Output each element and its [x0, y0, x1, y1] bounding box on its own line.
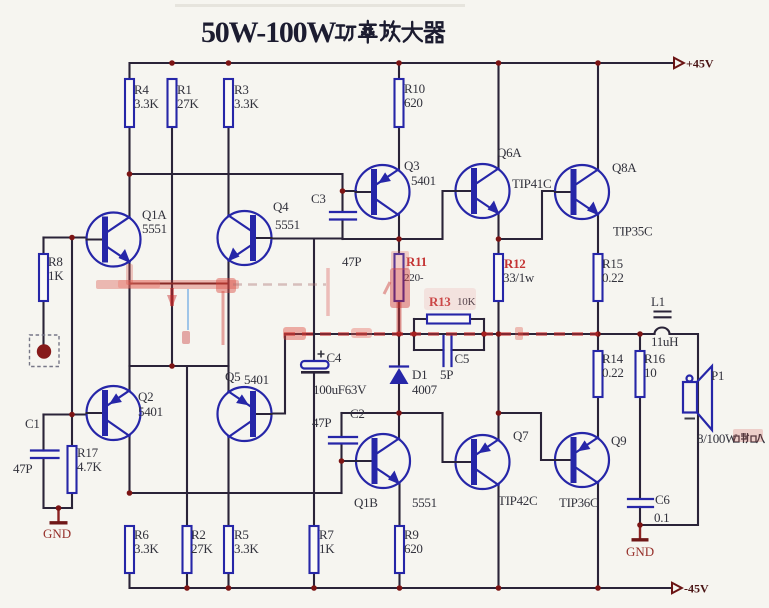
svg-text:P1: P1 [711, 368, 724, 383]
wire R7 bottom lead [313, 573, 315, 588]
wire R11 top lead [398, 239, 400, 254]
transistor Q5 [218, 387, 272, 441]
svg-text:Q2: Q2 [138, 389, 153, 404]
svg-text:Q8A: Q8A [612, 160, 637, 175]
svg-text:R10: R10 [404, 81, 425, 96]
svg-text:R1: R1 [177, 82, 192, 97]
watermark pink wash over R13 label [424, 288, 476, 310]
watermark red drip left [170, 288, 174, 306]
svg-text:R5: R5 [234, 527, 249, 542]
title chinese characters 功率放大器 [336, 21, 444, 43]
svg-text:C4: C4 [327, 350, 342, 365]
wire R13 top branch [414, 318, 484, 320]
wire Q9 base run [499, 413, 555, 460]
svg-text:10: 10 [644, 365, 656, 380]
wire bias bus to Q7 base [443, 413, 456, 462]
svg-text:Q1B: Q1B [354, 495, 378, 510]
wire Q2 base [44, 413, 87, 415]
wire Q7 emitter to -45 rail [497, 484, 499, 588]
wire R2 bottom lead [186, 573, 188, 588]
wire C3 bottom to emitter bus [341, 220, 343, 240]
watermark smear on emitter wire [96, 280, 239, 289]
capacitor C6 [628, 499, 653, 507]
transistor Q1B [356, 434, 410, 488]
wire C4 top column [313, 239, 315, 361]
svg-text:GND: GND [626, 544, 654, 559]
watermark pale column [326, 268, 330, 316]
svg-text:47P: 47P [342, 254, 361, 269]
svg-text:5551: 5551 [412, 495, 437, 510]
wire Q6A emitter to Q8A base [499, 191, 556, 239]
wire Q1A base to Q2 base column [71, 238, 73, 415]
resistor R3 [224, 79, 233, 127]
svg-text:R9: R9 [404, 527, 419, 542]
svg-text:27K: 27K [177, 96, 199, 111]
wire Q6A emitter lead [497, 213, 499, 239]
resistor R17 [68, 446, 77, 493]
transistor Q4 [218, 211, 272, 265]
wire R14 top lead [597, 334, 599, 351]
wire Q1A collector lead [128, 174, 130, 217]
svg-text:11uH: 11uH [651, 334, 678, 349]
wire C2 bottom to Q1B base [342, 444, 356, 462]
transistor Q7 [456, 435, 510, 489]
svg-text:1K: 1K [319, 541, 335, 556]
svg-text:0.22: 0.22 [602, 270, 624, 285]
wire R7 top column from C4 [313, 373, 315, 526]
svg-text:C2: C2 [350, 406, 365, 421]
watermark red tick [515, 327, 523, 340]
capacitor C3 [330, 212, 356, 220]
wire R8 bottom to input [42, 301, 44, 345]
svg-text:3.3K: 3.3K [134, 96, 159, 111]
svg-text:+45V: +45V [686, 57, 714, 71]
wire R15 bottom to output rail [597, 301, 599, 334]
wire R4 bottom lead to node [128, 127, 130, 174]
svg-text:Q1A: Q1A [142, 207, 167, 222]
transistor Q9 [555, 433, 609, 487]
wire D1 bottom lead [398, 384, 400, 413]
svg-text:R8: R8 [48, 254, 63, 269]
watermark red drip right [222, 291, 225, 345]
wire Q3 base stub [343, 190, 357, 192]
resistor R6 [125, 526, 134, 573]
svg-text:5401: 5401 [411, 173, 436, 188]
capacitor C5 [444, 336, 452, 366]
svg-text:3.3K: 3.3K [234, 96, 259, 111]
capacitor C4 plus sign [318, 351, 325, 358]
svg-text:Q5: Q5 [225, 369, 240, 384]
svg-text:5551: 5551 [142, 221, 167, 236]
transistor Q6A [456, 164, 510, 218]
wire Q3 emitter bus y239 to Q6A base [343, 191, 456, 239]
wire Q8A emitter to R15 [597, 214, 599, 254]
svg-text:Q3: Q3 [404, 158, 419, 173]
svg-text:R7: R7 [319, 527, 334, 542]
resistor R16 [636, 351, 645, 397]
svg-text:620: 620 [404, 95, 423, 110]
svg-text:TIP36C: TIP36C [559, 495, 598, 510]
resistor R12 [494, 254, 503, 301]
wire R16 top lead [639, 334, 641, 351]
wire R17 bottom lead [71, 493, 73, 508]
watermark red mark near Q5 [182, 331, 190, 344]
wire D1 top lead [398, 334, 400, 367]
svg-text:5551: 5551 [275, 217, 300, 232]
svg-text:47P: 47P [312, 415, 331, 430]
svg-text:Q6A: Q6A [497, 145, 522, 160]
watermark stain on Q1A emitter [126, 264, 133, 285]
wire collector bus y366 [130, 365, 229, 367]
svg-text:R15: R15 [602, 256, 623, 271]
wire Q5 lower lead to R5 [227, 436, 229, 526]
wire rail y493 to Q1B base riser [130, 492, 342, 494]
wire emitter coupling y283 [130, 283, 229, 285]
wire R10 top lead [398, 63, 400, 79]
svg-text:47P: 47P [13, 461, 32, 476]
watermark smear over R11 [390, 268, 410, 308]
speaker P1 [683, 366, 712, 430]
capacitor C4 [301, 361, 329, 369]
wire Q1B emitter to R9 [398, 483, 400, 526]
wire Q5 base to output rail riser [272, 334, 285, 414]
wire output rail after L1 to speaker [640, 334, 698, 525]
wire R5 bottom lead [227, 573, 229, 588]
svg-text:C3: C3 [311, 191, 326, 206]
wire C2 top lead [340, 413, 342, 437]
wire Q2 emitter to rail y493 [128, 436, 130, 493]
svg-text:0.22: 0.22 [602, 365, 624, 380]
wire R11 bottom lead [398, 301, 400, 334]
wire Q8A collector column [597, 63, 599, 170]
transistor Q3 [356, 165, 410, 219]
wire R2 top column [186, 366, 188, 526]
svg-text:R11: R11 [406, 254, 427, 269]
wire Q3 lower lead [398, 214, 400, 239]
svg-text:8/100W: 8/100W [697, 431, 738, 446]
input terminal node [37, 344, 51, 358]
speaker label chinese 喇叭 [734, 433, 765, 443]
resistor R14 [594, 351, 603, 397]
watermark light blue line [187, 289, 189, 330]
wire R9 bottom lead [398, 573, 400, 588]
wire output rail y334 [285, 333, 655, 335]
svg-text:L1: L1 [651, 294, 665, 309]
svg-text:1K: 1K [48, 268, 64, 283]
svg-text:C1: C1 [25, 416, 40, 431]
wire R10 bottom to Q3 [398, 127, 400, 169]
wire Q4 emitter to Q5 collector column [227, 262, 229, 393]
transistor Q1A [87, 213, 141, 267]
svg-text:620: 620 [404, 541, 423, 556]
photo edge streak [175, 4, 465, 7]
wire R1 column [171, 127, 173, 366]
wire R8 top lead [42, 238, 44, 255]
wire +45V top rail [130, 63, 675, 79]
wire R16 bottom to C6 [639, 397, 641, 499]
svg-text:TIP42C: TIP42C [498, 493, 537, 508]
resistor R10 [395, 79, 404, 127]
wire R3 to Q4 collector [227, 127, 229, 216]
svg-text:R16: R16 [644, 351, 666, 366]
svg-text:R4: R4 [134, 82, 149, 97]
wire R17 top lead [71, 415, 73, 447]
wire Q6A collector column [497, 63, 499, 169]
watermark remnants [96, 251, 763, 442]
svg-text:TIP35C: TIP35C [613, 224, 652, 239]
transistor Q8A [555, 165, 609, 219]
svg-text:-45V: -45V [684, 582, 709, 596]
svg-text:4.7K: 4.7K [77, 459, 102, 474]
diode D1 [390, 367, 409, 385]
wire C5 bottom branch [414, 349, 484, 351]
svg-text:C5: C5 [455, 351, 470, 366]
svg-text:50W-100W: 50W-100W [201, 16, 336, 49]
wire R14 bottom to Q9 collector [597, 397, 599, 438]
capacitor C2 [329, 437, 357, 444]
resistor R1 [168, 79, 177, 127]
svg-text:GND: GND [43, 526, 71, 541]
wire Q9 emitter to -45 rail [597, 482, 599, 588]
resistor R2 [183, 526, 192, 573]
transistor Q2 [87, 386, 141, 440]
wire Q1A emitter to Q2 collector column [128, 263, 130, 392]
wire Q1B base node to rail y493 [340, 461, 342, 493]
watermark blob mid rail [351, 328, 372, 338]
capacitor C1 [31, 451, 59, 459]
resistor R13 [427, 315, 470, 324]
resistor R4 [125, 79, 134, 127]
resistor R15 [594, 254, 603, 301]
wire node rail y174 to C3 column [130, 174, 343, 212]
resistor R8 [39, 254, 48, 301]
wire R12 node to Q9 base node [497, 334, 499, 413]
svg-text:D1: D1 [412, 367, 427, 382]
wire Q1A base [44, 236, 87, 238]
wire C1 top lead [42, 415, 44, 451]
watermark tint on speaker label [733, 429, 763, 442]
wire bias bus y413 [342, 412, 443, 414]
resistor R5 [224, 526, 233, 573]
svg-text:4007: 4007 [412, 382, 438, 397]
watermark blob at rail start [283, 327, 306, 340]
wire C6 bottom to ground node [639, 507, 641, 525]
wire -45V bottom rail [130, 573, 673, 588]
svg-text:R14: R14 [602, 351, 624, 366]
resistor R7 [310, 526, 319, 573]
svg-text:R12: R12 [504, 256, 526, 271]
svg-text:5401: 5401 [138, 404, 163, 419]
+45V arrow [674, 58, 684, 68]
svg-text:3.3K: 3.3K [234, 541, 259, 556]
svg-text:0.1: 0.1 [654, 510, 669, 525]
ground symbol right [632, 525, 649, 540]
watermark faint dash continuation [233, 283, 326, 286]
svg-text:R17: R17 [77, 445, 99, 460]
svg-text:C6: C6 [655, 492, 670, 507]
svg-text:Q9: Q9 [611, 433, 626, 448]
wire C1 bottom to ground run [44, 458, 73, 508]
resistor R9 [395, 526, 404, 573]
svg-text:5P: 5P [440, 367, 453, 382]
svg-text:Q7: Q7 [513, 428, 529, 443]
wire Q4 base to C4 column [272, 237, 343, 239]
wire Q1B collector lead [398, 413, 400, 439]
svg-text:100uF63V: 100uF63V [313, 382, 367, 397]
wire R13 cell right riser [483, 319, 485, 350]
wire Q7 collector lead [497, 413, 499, 440]
wire R12 bottom lead [497, 301, 499, 334]
-45V arrow [672, 583, 682, 593]
ground symbol left [50, 508, 68, 523]
inductor L1 [655, 312, 671, 335]
watermark red dashes on output rail [284, 332, 598, 336]
svg-text:27K: 27K [191, 541, 213, 556]
wire R13 cell left riser [413, 319, 415, 350]
svg-text:5401: 5401 [244, 372, 269, 387]
resistor R11 [395, 254, 404, 301]
svg-text:Q4: Q4 [273, 199, 289, 214]
input terminal dashed box [30, 335, 60, 367]
svg-text:33/1w: 33/1w [503, 270, 535, 285]
svg-text:3.3K: 3.3K [134, 541, 159, 556]
svg-text:R2: R2 [191, 527, 206, 542]
svg-text:R6: R6 [134, 527, 149, 542]
svg-text:TIP41C: TIP41C [512, 176, 551, 191]
wire R12 top lead [497, 239, 499, 254]
svg-text:R3: R3 [234, 82, 249, 97]
